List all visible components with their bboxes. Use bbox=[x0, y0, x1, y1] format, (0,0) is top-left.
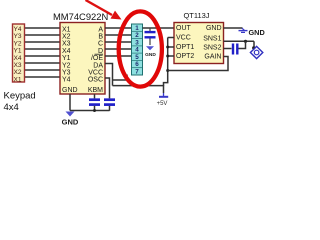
ground GND2 bbox=[145, 46, 156, 58]
svg-text:VCC: VCC bbox=[88, 70, 103, 77]
svg-text:X3: X3 bbox=[62, 41, 71, 48]
svg-text:X2: X2 bbox=[14, 69, 22, 76]
wire Y3 row bbox=[25, 34, 61, 36]
wire +5V rail bbox=[113, 86, 164, 93]
svg-text:QT113J: QT113J bbox=[183, 11, 209, 20]
wire Y1 row bbox=[25, 48, 61, 50]
keypad connector J1 bbox=[13, 24, 25, 83]
svg-text:SNS2: SNS2 bbox=[203, 45, 221, 52]
wire A to pin1 bbox=[105, 27, 132, 29]
svg-text:6: 6 bbox=[135, 61, 139, 68]
svg-text:X2: X2 bbox=[62, 34, 71, 41]
svg-text:OUT: OUT bbox=[176, 25, 192, 32]
wire OSC down bbox=[105, 78, 110, 98]
svg-text:Y4: Y4 bbox=[14, 26, 22, 33]
svg-text:X1: X1 bbox=[14, 76, 22, 83]
wire C to pin3 bbox=[105, 41, 132, 43]
power +5V bbox=[157, 93, 169, 107]
ground GND1 bbox=[62, 112, 79, 127]
svg-text:GND: GND bbox=[62, 87, 78, 94]
svg-text:1: 1 bbox=[135, 25, 139, 32]
svg-text:5: 5 bbox=[135, 54, 139, 61]
junction bbox=[166, 46, 169, 49]
ground GND3 bbox=[239, 28, 265, 37]
wire C1 to rail bbox=[94, 106, 96, 111]
junction bbox=[244, 40, 247, 43]
wire GND down bbox=[69, 94, 71, 111]
wire GAIN loop bbox=[168, 57, 228, 71]
IC U2 QT113J bbox=[174, 11, 224, 64]
svg-text:7: 7 bbox=[135, 69, 139, 76]
IC U1 MM74C922N bbox=[53, 11, 108, 94]
svg-text:Y2: Y2 bbox=[14, 40, 22, 47]
svg-text:GND: GND bbox=[62, 118, 79, 127]
capacitor C4 bbox=[233, 44, 237, 55]
capacitor C2 bbox=[104, 100, 115, 105]
wire /OE to pin5 bbox=[105, 55, 132, 57]
svg-text:Y2: Y2 bbox=[62, 62, 71, 69]
electrode E1 bbox=[250, 41, 262, 58]
wire Y4 row bbox=[25, 27, 61, 29]
wire X2 row bbox=[25, 69, 61, 71]
svg-text:GND: GND bbox=[145, 52, 156, 58]
svg-text:KBM: KBM bbox=[88, 87, 103, 94]
svg-text:4: 4 bbox=[135, 47, 139, 54]
wire Y2 row bbox=[25, 41, 61, 43]
svg-text:+5V: +5V bbox=[157, 101, 168, 107]
wire GND row bbox=[224, 27, 243, 29]
wire OUT row bbox=[143, 27, 175, 29]
wire X4 row bbox=[25, 55, 61, 57]
label Keypad 4x4 bbox=[4, 91, 36, 114]
svg-text:Y1: Y1 bbox=[62, 55, 71, 62]
svg-text:Y1: Y1 bbox=[14, 48, 22, 55]
svg-text:Y3: Y3 bbox=[14, 33, 22, 40]
wire X1 row bbox=[25, 76, 61, 78]
svg-text:OPT2: OPT2 bbox=[176, 53, 194, 60]
svg-text:B: B bbox=[98, 34, 103, 41]
wire B to pin2 bbox=[105, 34, 132, 36]
svg-text:4x4: 4x4 bbox=[4, 102, 19, 113]
wire D to pin4 bbox=[105, 48, 132, 50]
svg-text:X4: X4 bbox=[62, 48, 71, 55]
capacitor C1 bbox=[89, 100, 100, 105]
wire C2 to rail bbox=[109, 106, 111, 111]
svg-text:A: A bbox=[98, 26, 103, 33]
wire C4 to SNS1 bbox=[239, 41, 246, 48]
wire VCC/OPT chain bbox=[164, 38, 175, 86]
svg-text:X4: X4 bbox=[14, 55, 22, 62]
svg-text:SNS1: SNS1 bbox=[203, 36, 221, 43]
annotation arrow bbox=[86, 0, 122, 20]
svg-text:OSC: OSC bbox=[88, 77, 103, 84]
junction bbox=[166, 69, 169, 72]
svg-text:DA: DA bbox=[93, 62, 103, 69]
svg-text:Keypad: Keypad bbox=[4, 91, 36, 102]
svg-text:2: 2 bbox=[135, 32, 139, 39]
svg-text:GAIN: GAIN bbox=[204, 54, 221, 61]
svg-text:/OE: /OE bbox=[91, 55, 103, 62]
junction bbox=[93, 109, 96, 112]
svg-text:MM74C922N: MM74C922N bbox=[53, 11, 108, 22]
wire SNS1 row bbox=[224, 40, 255, 42]
svg-text:GND: GND bbox=[249, 28, 265, 37]
wire X3 row bbox=[25, 62, 61, 64]
svg-text:3: 3 bbox=[135, 40, 139, 47]
svg-text:GND: GND bbox=[206, 25, 222, 32]
capacitor C3 bbox=[145, 28, 156, 45]
svg-text:VCC: VCC bbox=[176, 35, 191, 42]
wire KBM down bbox=[94, 94, 96, 98]
svg-text:X3: X3 bbox=[14, 62, 22, 69]
wire ground rail bbox=[70, 110, 110, 112]
svg-text:Y4: Y4 bbox=[62, 77, 71, 84]
svg-text:Y3: Y3 bbox=[62, 70, 71, 77]
wire pin7 spur bbox=[113, 75, 128, 81]
svg-text:C: C bbox=[98, 41, 103, 48]
wire SNS2 row bbox=[224, 48, 232, 50]
wire DA down bbox=[105, 64, 113, 86]
annotation ellipse bbox=[119, 11, 162, 86]
svg-text:OPT1: OPT1 bbox=[176, 44, 194, 51]
junction bbox=[166, 55, 169, 58]
svg-text:X1: X1 bbox=[62, 26, 71, 33]
connector J2 pins 1-7 bbox=[132, 24, 143, 76]
